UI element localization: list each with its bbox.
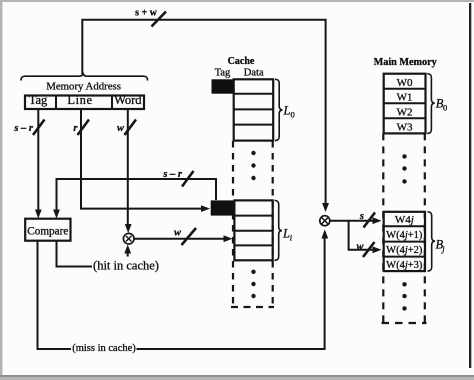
- cache dots lower: [251, 270, 255, 299]
- label L0: [283, 104, 295, 120]
- memory block Bj cells: [384, 212, 425, 271]
- wire block selector to memory W4j: [330, 220, 374, 222]
- svg-text:w: w: [117, 123, 125, 134]
- slash tick on feedback wire: [182, 171, 194, 187]
- slash tick on tag wire: [33, 120, 45, 136]
- arrowhead into cache data column: [224, 235, 233, 242]
- wire hit to word selector: [127, 248, 129, 257]
- slash tick on line wire: [78, 120, 90, 136]
- cache line Li tag cell (filled): [211, 200, 235, 215]
- arrowhead into cache tag cell: [201, 205, 210, 212]
- label B0: [436, 97, 447, 113]
- svg-text:(miss in cache): (miss in cache): [72, 343, 136, 354]
- svg-text:W0: W0: [397, 77, 413, 89]
- svg-text:Tag: Tag: [29, 93, 48, 107]
- cache dashed column right: [272, 141, 274, 306]
- svg-text:L: L: [282, 227, 290, 241]
- svg-text:Compare: Compare: [27, 225, 68, 237]
- svg-text:W1: W1: [397, 91, 413, 103]
- compare box: [25, 219, 70, 241]
- svg-text:Cache: Cache: [228, 56, 255, 67]
- slash tick on w memory wire: [363, 242, 375, 257]
- memory dashed column left: [382, 133, 384, 322]
- arrowhead into compare (tag): [35, 210, 42, 219]
- memory dots upper: [402, 154, 406, 183]
- svg-text:W(4j+2): W(4j+2): [386, 245, 423, 256]
- svg-text:w: w: [174, 228, 182, 239]
- word selector circle: [123, 233, 134, 244]
- brace L0: [275, 79, 283, 140]
- slash tick on s memory wire: [364, 213, 376, 228]
- svg-text:Data: Data: [244, 67, 264, 78]
- block selector circle: [320, 216, 330, 226]
- wire word selector to cache data: [134, 238, 225, 240]
- brace B0: [427, 74, 435, 134]
- divider Tag|Line: [55, 96, 57, 110]
- arrowhead into block selector bottom: [321, 230, 328, 239]
- memory address box: [25, 96, 144, 110]
- svg-text:W3: W3: [397, 121, 413, 133]
- wire compare to hit label: [57, 241, 93, 267]
- svg-text:Memory Address: Memory Address: [46, 81, 121, 93]
- arrowhead into word selector bottom: [124, 245, 131, 254]
- figure frame right edge: [469, 3, 471, 368]
- page edge top: [0, 0, 474, 2]
- cache dots upper: [251, 151, 255, 180]
- brace Li: [275, 200, 283, 260]
- cache line L0 tag cell (filled): [212, 79, 234, 93]
- wire line field to cache tag cell: [81, 110, 202, 209]
- svg-text:W2: W2: [397, 106, 413, 118]
- svg-text:0: 0: [443, 103, 447, 113]
- cache line Li data cells: [234, 200, 272, 260]
- svg-text:0: 0: [291, 110, 295, 120]
- label Bj: [436, 238, 446, 254]
- slash tick on s+w wire: [152, 12, 167, 27]
- svg-text:W4j: W4j: [395, 214, 414, 226]
- memory dashed bottom: [382, 322, 427, 324]
- wire miss to block selector: [137, 232, 325, 349]
- wire cache tag to compare (s-r feedback): [57, 179, 217, 214]
- brace Bj: [428, 212, 436, 271]
- svg-text:s + w: s + w: [135, 8, 158, 19]
- svg-text:s: s: [359, 211, 364, 222]
- svg-text:Main Memory: Main Memory: [374, 57, 437, 68]
- svg-text:Line: Line: [67, 93, 92, 107]
- svg-text:L: L: [283, 104, 291, 118]
- memory dots lower: [402, 282, 406, 311]
- wire word field to word selector: [127, 110, 129, 230]
- divider Line|Word: [111, 96, 113, 110]
- slash tick on selector wire: [182, 228, 197, 245]
- arrowhead into W(4j+2): [373, 246, 382, 253]
- svg-text:w: w: [356, 242, 364, 253]
- arrowhead into word selector top: [125, 224, 132, 233]
- cache line L0 data cells: [234, 79, 274, 140]
- arrowhead into block selector top: [322, 203, 329, 212]
- wire block selector branch to W(4j+2): [349, 221, 374, 250]
- wire s+w (top bus from memory address to block selector): [82, 20, 325, 206]
- slash tick on word wire: [125, 120, 137, 136]
- cache dashed column left: [232, 141, 234, 306]
- svg-text:W(4j+3): W(4j+3): [386, 260, 423, 271]
- svg-text:(hit in cache): (hit in cache): [93, 259, 159, 273]
- memory block B0 cells: [384, 74, 426, 134]
- svg-text:s – r: s – r: [162, 169, 183, 180]
- svg-text:s – r: s – r: [13, 123, 34, 134]
- cache dashed bottom: [231, 306, 274, 308]
- wire compare to miss label: [38, 241, 72, 349]
- page edge left: [0, 0, 3, 380]
- memory dashed column right: [424, 133, 426, 322]
- svg-text:Tag: Tag: [215, 67, 231, 78]
- page edge bottom: [0, 375, 474, 380]
- arrowhead into W4j: [373, 217, 382, 224]
- svg-text:Word: Word: [114, 93, 142, 107]
- wire tag field to compare: [37, 110, 39, 215]
- label Li: [282, 227, 293, 243]
- svg-text:W(4j+1): W(4j+1): [386, 230, 423, 241]
- arrowhead into compare (cache tag): [53, 210, 60, 219]
- brace over memory address: [21, 73, 148, 81]
